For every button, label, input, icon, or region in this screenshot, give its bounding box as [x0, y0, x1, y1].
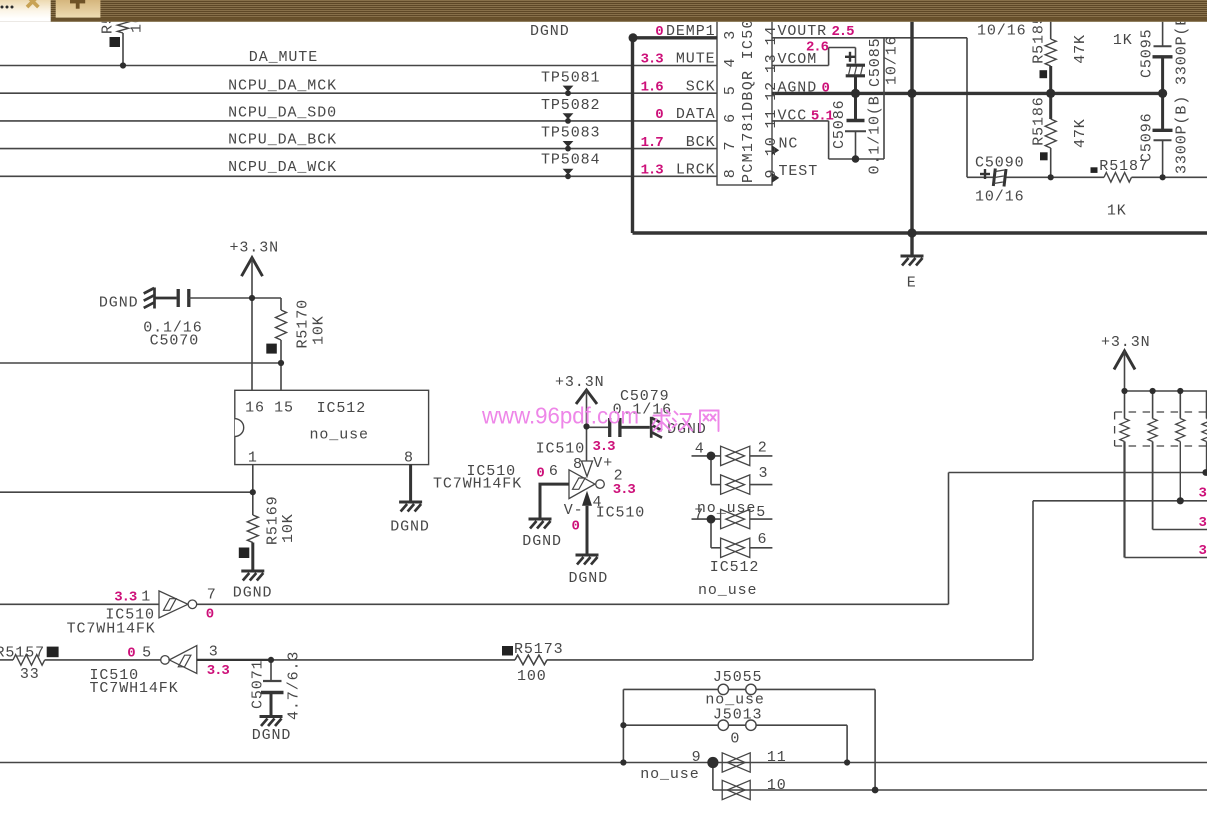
- svg-text:0: 0: [206, 607, 214, 623]
- svg-text:5: 5: [722, 85, 739, 95]
- svg-text:J5055: J5055: [713, 669, 763, 686]
- svg-text:TC7WH14FK: TC7WH14FK: [90, 680, 179, 697]
- svg-text:DGND: DGND: [522, 533, 562, 550]
- svg-text:1: 1: [141, 589, 151, 606]
- svg-text:47K: 47K: [1072, 118, 1089, 148]
- svg-text:NCPU_DA_BCK: NCPU_DA_BCK: [228, 132, 337, 149]
- svg-text:TEST: TEST: [779, 163, 819, 180]
- svg-text:10/16: 10/16: [977, 23, 1027, 40]
- svg-text:0.1/10(B: 0.1/10(B: [867, 95, 884, 174]
- svg-text:1K: 1K: [1107, 203, 1127, 220]
- svg-text:IC512: IC512: [317, 400, 367, 417]
- svg-text:IC510: IC510: [536, 440, 586, 457]
- svg-text:7: 7: [207, 587, 217, 604]
- svg-text:VOUTR: VOUTR: [778, 23, 828, 40]
- svg-text:IC510: IC510: [596, 504, 646, 521]
- svg-text:no_use: no_use: [698, 582, 757, 599]
- svg-text:11: 11: [767, 749, 787, 766]
- svg-text:3300P(B): 3300P(B): [1174, 95, 1191, 174]
- svg-text:2: 2: [758, 439, 768, 456]
- svg-text:10: 10: [767, 777, 787, 794]
- svg-text:1: 1: [248, 449, 258, 466]
- svg-text:8: 8: [573, 456, 583, 473]
- svg-text:+3.3N: +3.3N: [1101, 334, 1151, 351]
- svg-text:NC: NC: [779, 135, 799, 152]
- svg-text:9: 9: [763, 169, 780, 179]
- svg-text:www.96pdf.com: www.96pdf.com: [481, 403, 639, 429]
- svg-text:9: 9: [692, 749, 702, 766]
- svg-text:10/16: 10/16: [975, 189, 1025, 206]
- svg-text:AGND: AGND: [778, 79, 818, 96]
- svg-text:+3.3N: +3.3N: [230, 240, 280, 257]
- svg-text:TP5082: TP5082: [541, 97, 600, 114]
- svg-text:100: 100: [517, 668, 547, 685]
- svg-text:NCPU_DA_MCK: NCPU_DA_MCK: [228, 77, 337, 94]
- svg-text:R5170: R5170: [295, 299, 312, 349]
- svg-text:V+: V+: [593, 455, 613, 472]
- svg-text:V-: V-: [564, 502, 584, 519]
- svg-text:6: 6: [758, 531, 768, 548]
- svg-text:2.5: 2.5: [832, 24, 855, 40]
- svg-text:0: 0: [655, 107, 663, 123]
- svg-text:VCC: VCC: [778, 107, 808, 124]
- svg-text:3.3: 3.3: [641, 52, 664, 68]
- svg-text:8: 8: [722, 168, 739, 178]
- svg-text:C5095: C5095: [1139, 28, 1156, 78]
- svg-text:TP5083: TP5083: [541, 124, 600, 141]
- svg-text:8: 8: [404, 449, 414, 466]
- svg-text:10/16: 10/16: [884, 35, 901, 85]
- svg-text:12: 12: [763, 81, 780, 101]
- svg-text:3.3: 3.3: [114, 590, 137, 606]
- svg-text:3300P(B: 3300P(B: [1174, 16, 1191, 85]
- svg-text:3: 3: [1199, 486, 1207, 502]
- svg-text:C5096: C5096: [1139, 112, 1156, 162]
- svg-text:TP5084: TP5084: [541, 152, 600, 169]
- svg-text:J5013: J5013: [713, 706, 763, 723]
- svg-text:6: 6: [549, 463, 559, 480]
- svg-text:0: 0: [655, 24, 663, 40]
- svg-text:C5086: C5086: [831, 99, 848, 149]
- svg-text:1.6: 1.6: [641, 79, 664, 95]
- svg-text:3.3: 3.3: [613, 482, 636, 498]
- svg-text:R5169: R5169: [265, 495, 282, 545]
- svg-text:16: 16: [245, 400, 265, 417]
- svg-text:5: 5: [142, 644, 152, 661]
- svg-text:0: 0: [536, 466, 544, 482]
- svg-text:DGND: DGND: [233, 584, 273, 601]
- svg-text:NCPU_DA_WCK: NCPU_DA_WCK: [228, 159, 337, 176]
- svg-text:4.7/6.3: 4.7/6.3: [286, 651, 303, 720]
- svg-text:MUTE: MUTE: [676, 51, 716, 68]
- svg-text:DGND: DGND: [390, 518, 430, 535]
- svg-text:1K: 1K: [1113, 32, 1133, 49]
- svg-text:BCK: BCK: [686, 134, 716, 151]
- svg-text:R5173: R5173: [514, 641, 564, 658]
- svg-text:0: 0: [822, 80, 830, 96]
- svg-text:C5085: C5085: [867, 37, 884, 87]
- svg-text:1.7: 1.7: [641, 135, 664, 151]
- svg-text:3: 3: [1199, 543, 1207, 559]
- svg-text:3: 3: [209, 643, 219, 660]
- svg-text:+3.3N: +3.3N: [555, 374, 605, 391]
- svg-text:33: 33: [20, 666, 40, 683]
- svg-text:R5157: R5157: [0, 644, 45, 661]
- svg-text:NCPU_DA_SD0: NCPU_DA_SD0: [228, 104, 337, 121]
- svg-text:C5070: C5070: [150, 332, 200, 349]
- svg-text:0: 0: [730, 731, 740, 748]
- svg-text:10K: 10K: [280, 513, 297, 543]
- svg-text:1.3: 1.3: [641, 163, 664, 179]
- svg-text:3.3: 3.3: [593, 439, 616, 455]
- svg-text:13: 13: [763, 53, 780, 73]
- svg-text:DGND: DGND: [99, 295, 139, 312]
- svg-text:4: 4: [722, 58, 739, 68]
- svg-text:6: 6: [722, 113, 739, 123]
- svg-text:E: E: [907, 275, 917, 292]
- svg-text:47K: 47K: [1072, 34, 1089, 64]
- svg-text:C5090: C5090: [975, 155, 1025, 172]
- svg-text:DGND: DGND: [569, 570, 609, 587]
- svg-text:PCM1781DBQR IC50: PCM1781DBQR IC50: [740, 18, 757, 183]
- svg-text:C5071: C5071: [250, 659, 267, 709]
- svg-text:15: 15: [274, 400, 294, 417]
- svg-text:no_use: no_use: [640, 766, 699, 783]
- svg-text:TC7WH14FK: TC7WH14FK: [433, 476, 522, 493]
- svg-text:R5186: R5186: [1031, 96, 1048, 146]
- svg-text:14: 14: [763, 26, 780, 46]
- svg-text:4: 4: [695, 441, 705, 458]
- svg-text:TC7WH14FK: TC7WH14FK: [67, 621, 156, 638]
- svg-text:2.6: 2.6: [806, 40, 829, 56]
- svg-text:0: 0: [127, 645, 135, 661]
- svg-text:SCK: SCK: [686, 78, 716, 95]
- svg-text:3.3: 3.3: [207, 663, 230, 679]
- svg-text:10K: 10K: [311, 315, 328, 345]
- svg-text:0: 0: [572, 519, 580, 535]
- svg-text:DGND: DGND: [252, 727, 292, 744]
- svg-text:no_use: no_use: [697, 500, 756, 517]
- svg-text:IC512: IC512: [710, 559, 760, 576]
- svg-text:3: 3: [722, 30, 739, 40]
- svg-text:TP5081: TP5081: [541, 69, 600, 86]
- svg-text:11: 11: [763, 109, 780, 129]
- svg-text:R5187: R5187: [1099, 158, 1149, 175]
- svg-text:5: 5: [756, 504, 766, 521]
- svg-text:DGND: DGND: [530, 23, 570, 40]
- svg-text:DA_MUTE: DA_MUTE: [249, 49, 318, 66]
- svg-text:no_use: no_use: [310, 427, 369, 444]
- svg-text:3: 3: [1199, 515, 1207, 531]
- svg-text:7: 7: [722, 141, 739, 151]
- svg-text:LRCK: LRCK: [676, 162, 716, 179]
- svg-text:DATA: DATA: [676, 106, 716, 123]
- svg-text:3: 3: [759, 465, 769, 482]
- svg-text:DEMP1: DEMP1: [666, 23, 716, 40]
- svg-text:10: 10: [763, 136, 780, 156]
